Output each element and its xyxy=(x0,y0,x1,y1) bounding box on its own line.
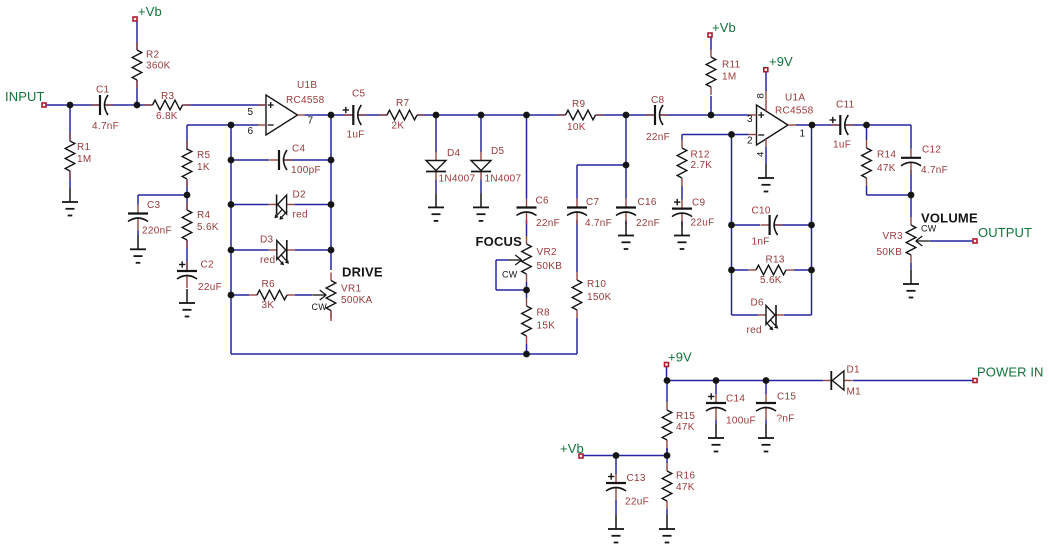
svg-text:C2: C2 xyxy=(201,260,215,271)
svg-text:1N4007: 1N4007 xyxy=(485,174,522,185)
svg-text:4: 4 xyxy=(756,151,767,157)
svg-text:R15: R15 xyxy=(676,411,695,422)
svg-text:C14: C14 xyxy=(726,394,745,405)
svg-text:22uF: 22uF xyxy=(691,218,715,229)
svg-text:2K: 2K xyxy=(392,121,405,132)
svg-text:C12: C12 xyxy=(922,145,941,156)
svg-text:CW: CW xyxy=(312,302,328,312)
svg-text:5.6K: 5.6K xyxy=(760,275,782,286)
svg-text:+Vb: +Vb xyxy=(712,20,736,35)
svg-text:1K: 1K xyxy=(197,162,210,173)
svg-text:3K: 3K xyxy=(262,300,275,311)
svg-text:4.7nF: 4.7nF xyxy=(921,165,948,176)
svg-text:red: red xyxy=(260,255,275,266)
svg-text:47K: 47K xyxy=(676,422,695,433)
svg-text:R6: R6 xyxy=(262,279,276,290)
svg-text:C16: C16 xyxy=(638,197,657,208)
svg-text:100uF: 100uF xyxy=(726,416,756,427)
svg-text:5: 5 xyxy=(248,107,254,118)
svg-text:3: 3 xyxy=(747,114,753,125)
svg-text:C1: C1 xyxy=(96,85,110,96)
svg-text:R11: R11 xyxy=(722,60,741,71)
svg-text:500KA: 500KA xyxy=(341,295,373,306)
svg-text:VR1: VR1 xyxy=(341,284,361,295)
svg-text:1N4007: 1N4007 xyxy=(439,174,476,185)
svg-text:red: red xyxy=(747,325,762,336)
svg-text:R3: R3 xyxy=(161,91,175,102)
svg-text:D3: D3 xyxy=(260,235,274,246)
svg-text:VR2: VR2 xyxy=(537,247,557,258)
svg-text:C7: C7 xyxy=(586,197,600,208)
svg-text:R8: R8 xyxy=(537,308,551,319)
svg-text:C15: C15 xyxy=(777,392,796,403)
svg-text:C6: C6 xyxy=(536,196,550,207)
svg-text:22nF: 22nF xyxy=(536,218,560,229)
svg-text:CW: CW xyxy=(502,270,518,280)
svg-text:M1: M1 xyxy=(847,387,862,398)
svg-text:+9V: +9V xyxy=(668,350,692,365)
svg-text:C11: C11 xyxy=(836,100,855,111)
svg-text:47K: 47K xyxy=(877,163,896,174)
svg-text:C8: C8 xyxy=(651,95,665,106)
svg-text:R2: R2 xyxy=(146,50,160,61)
svg-text:D1: D1 xyxy=(847,365,861,376)
svg-text:1uF: 1uF xyxy=(833,140,851,151)
svg-text:10K: 10K xyxy=(567,122,586,133)
svg-text:INPUT: INPUT xyxy=(5,89,45,104)
svg-text:100pF: 100pF xyxy=(291,165,321,176)
svg-text:22nF: 22nF xyxy=(646,132,670,143)
svg-text:CW: CW xyxy=(921,224,937,234)
svg-text:R12: R12 xyxy=(691,150,710,161)
svg-text:47K: 47K xyxy=(676,482,695,493)
svg-text:U1B: U1B xyxy=(297,80,317,91)
svg-text:red: red xyxy=(293,210,308,221)
svg-text:150K: 150K xyxy=(587,292,612,303)
svg-text:50KB: 50KB xyxy=(877,247,903,258)
svg-text:22nF: 22nF xyxy=(636,218,660,229)
svg-text:+9V: +9V xyxy=(769,54,793,69)
svg-text:DRIVE: DRIVE xyxy=(342,265,383,280)
svg-text:FOCUS: FOCUS xyxy=(476,234,523,249)
svg-text:C10: C10 xyxy=(752,206,771,217)
svg-text:50KB: 50KB xyxy=(537,261,563,272)
svg-text:R14: R14 xyxy=(877,150,896,161)
svg-text:1uF: 1uF xyxy=(347,130,365,141)
svg-text:C9: C9 xyxy=(692,198,706,209)
svg-text:POWER IN: POWER IN xyxy=(977,365,1044,380)
svg-text:8: 8 xyxy=(756,93,767,99)
svg-text:D6: D6 xyxy=(751,298,765,309)
svg-text:R10: R10 xyxy=(587,279,606,290)
svg-text:4.7nF: 4.7nF xyxy=(92,121,119,132)
svg-text:OUTPUT: OUTPUT xyxy=(978,225,1032,240)
svg-text:D4: D4 xyxy=(447,148,461,159)
svg-text:C3: C3 xyxy=(147,200,161,211)
svg-text:220nF: 220nF xyxy=(142,226,172,237)
svg-text:U1A: U1A xyxy=(785,93,805,104)
svg-text:+Vb: +Vb xyxy=(560,441,584,456)
svg-text:1M: 1M xyxy=(722,72,737,83)
svg-text:22uF: 22uF xyxy=(625,497,649,508)
svg-text:RC4558: RC4558 xyxy=(775,106,814,117)
svg-text:R5: R5 xyxy=(197,150,211,161)
svg-text:1nF: 1nF xyxy=(752,237,770,248)
svg-text:2: 2 xyxy=(747,136,753,147)
svg-text:4.7nF: 4.7nF xyxy=(585,218,612,229)
svg-text:C13: C13 xyxy=(627,473,646,484)
svg-text:?nF: ?nF xyxy=(777,414,795,425)
svg-text:R1: R1 xyxy=(77,142,91,153)
svg-text:D2: D2 xyxy=(293,190,307,201)
svg-text:C4: C4 xyxy=(292,144,306,155)
svg-text:6: 6 xyxy=(248,126,254,137)
svg-text:1: 1 xyxy=(800,129,806,140)
svg-text:R16: R16 xyxy=(676,471,695,482)
svg-text:R13: R13 xyxy=(766,255,785,266)
svg-text:D5: D5 xyxy=(491,146,505,157)
svg-text:R4: R4 xyxy=(197,210,211,221)
svg-text:2.7K: 2.7K xyxy=(691,160,713,171)
svg-text:22uF: 22uF xyxy=(198,282,222,293)
svg-text:R9: R9 xyxy=(572,99,586,110)
svg-text:C5: C5 xyxy=(352,89,366,100)
svg-text:7: 7 xyxy=(308,116,314,127)
svg-text:6.8K: 6.8K xyxy=(156,111,178,122)
svg-text:1M: 1M xyxy=(77,154,92,165)
svg-text:R7: R7 xyxy=(396,98,410,109)
svg-text:15K: 15K xyxy=(537,321,556,332)
svg-text:360K: 360K xyxy=(146,61,171,72)
svg-text:VR3: VR3 xyxy=(883,231,903,242)
svg-text:5.6K: 5.6K xyxy=(197,222,219,233)
svg-text:+Vb: +Vb xyxy=(138,4,162,19)
svg-text:RC4558: RC4558 xyxy=(286,95,325,106)
